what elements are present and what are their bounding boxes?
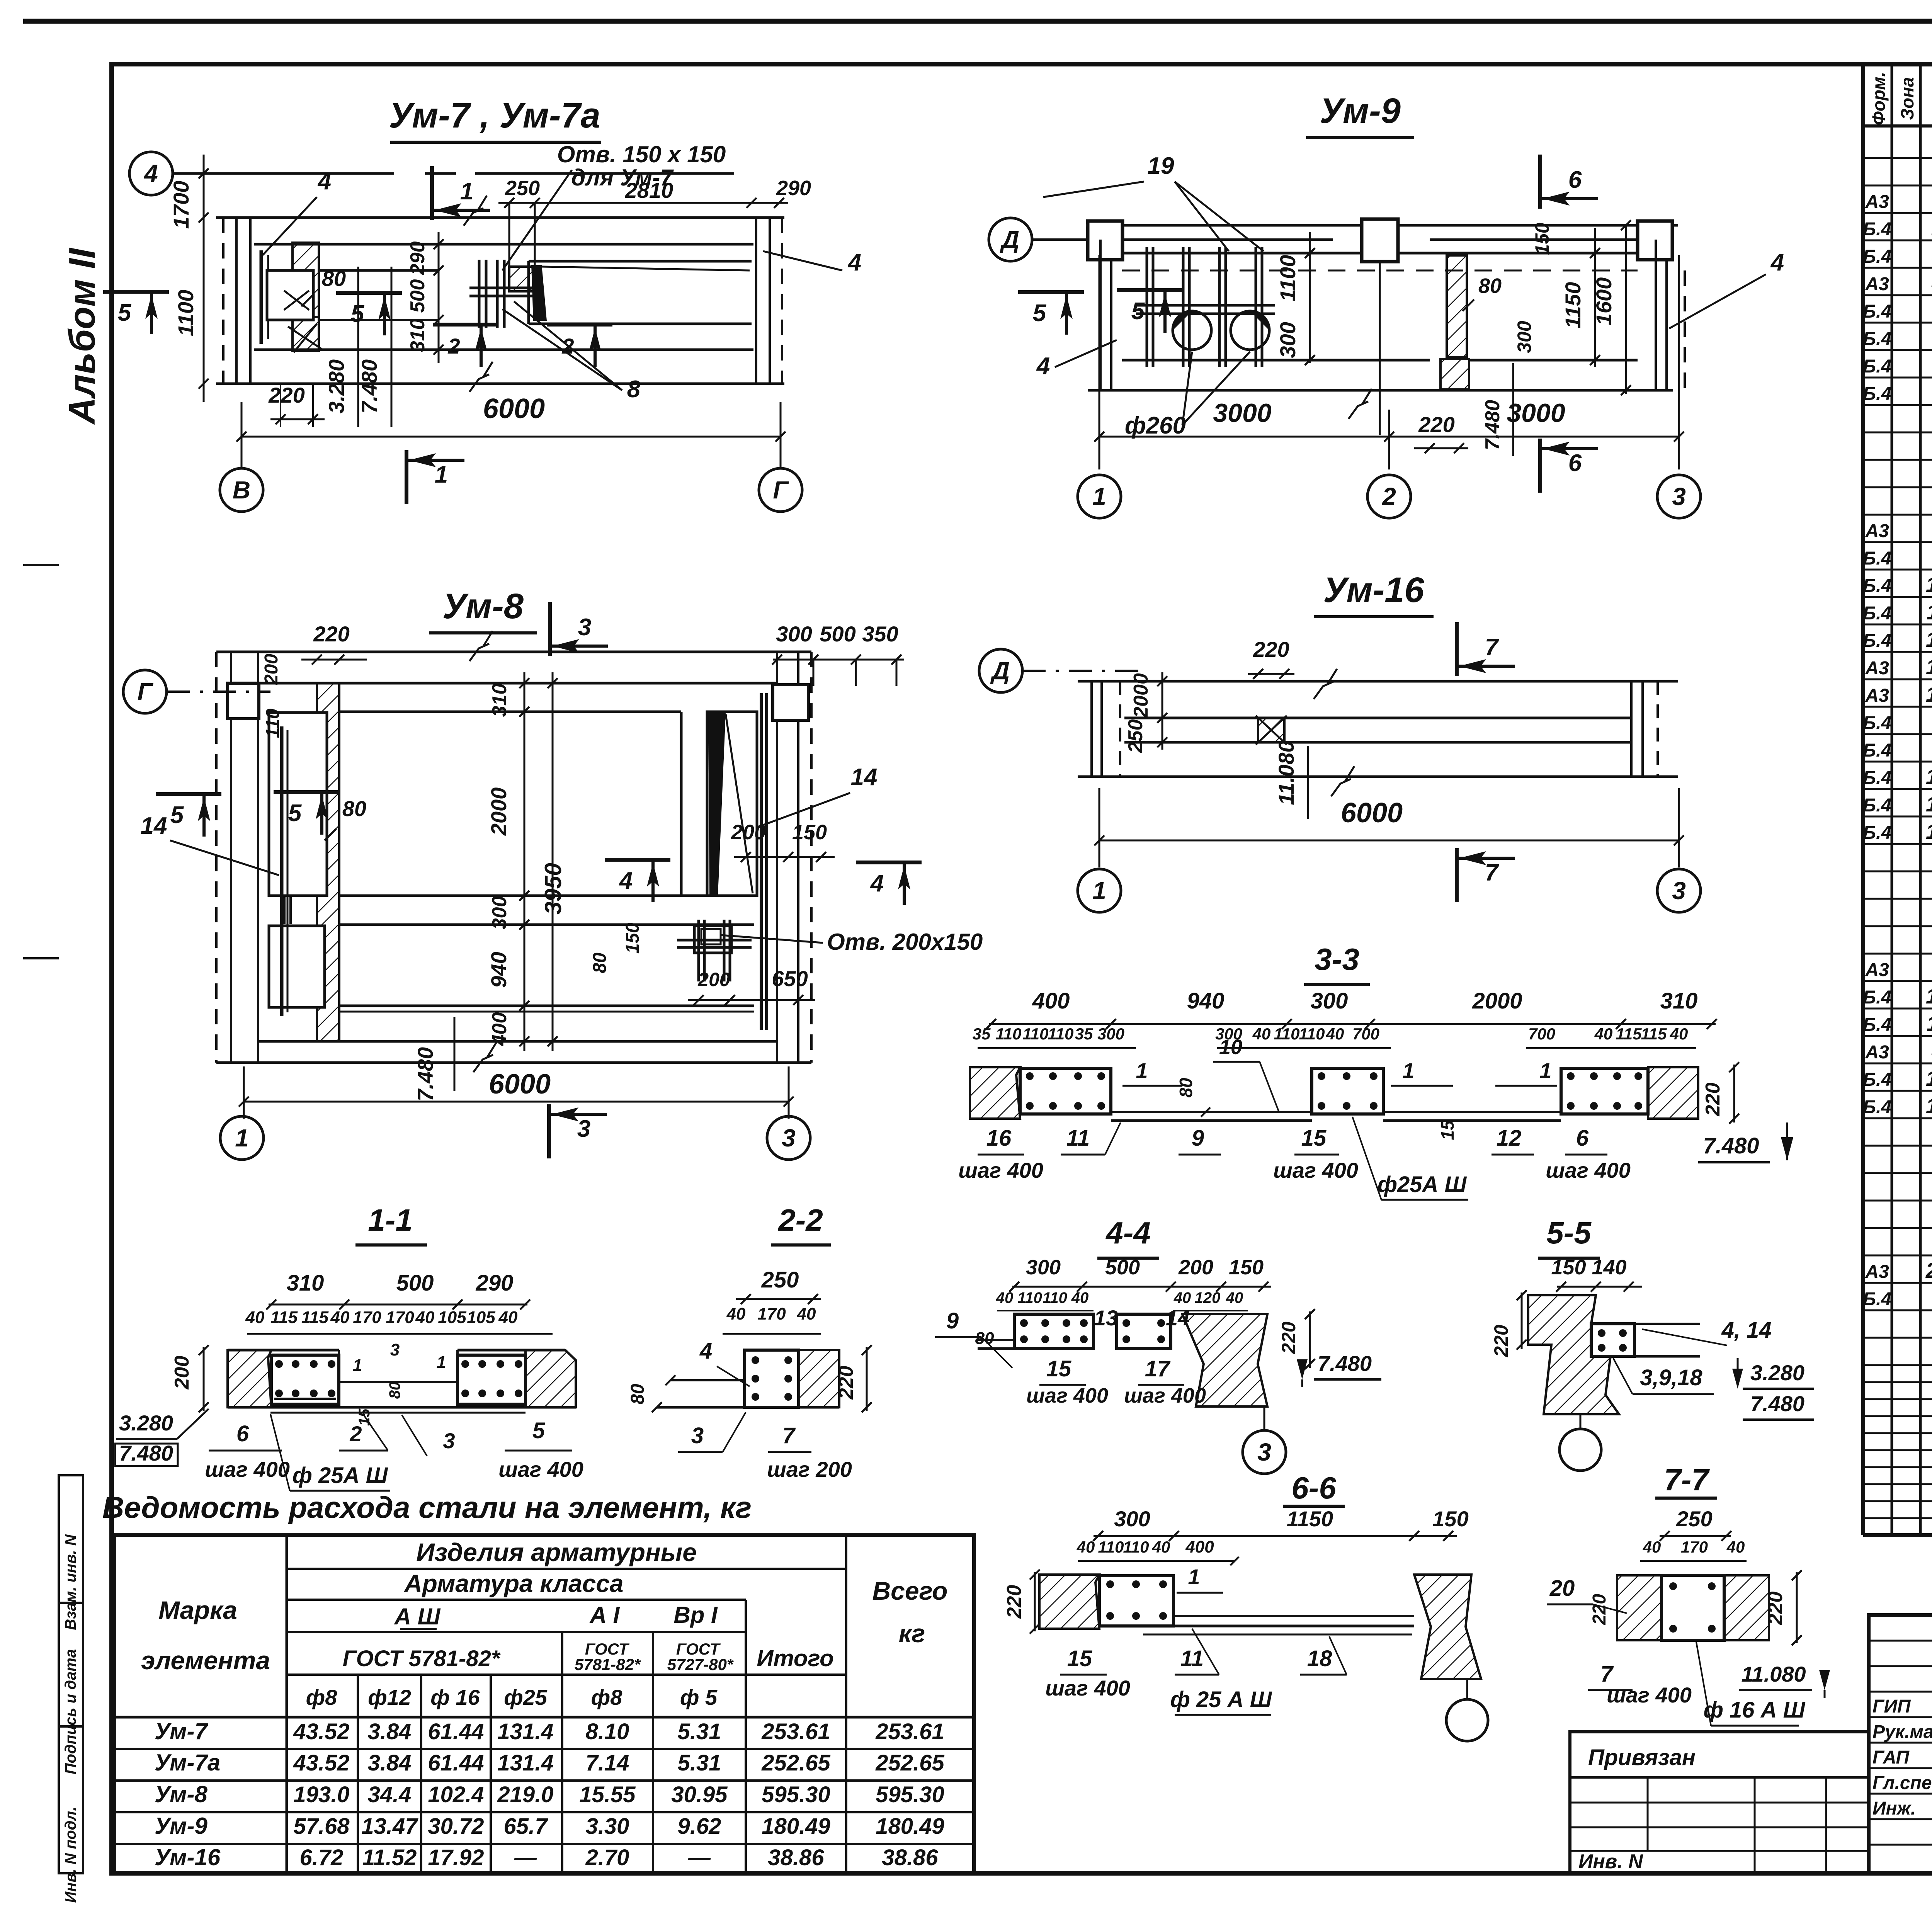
plan Um-7 axis circle В — [220, 468, 263, 512]
plan Um-9 axis circle 2 — [1367, 475, 1411, 518]
spec row 34 — [1863, 1063, 1932, 1065]
svg-text:11: 11 — [1927, 1011, 1932, 1036]
section 4-4 slab stub left — [978, 1339, 1014, 1341]
svg-text:300: 300 — [1097, 1025, 1124, 1043]
svg-text:40: 40 — [498, 1308, 518, 1327]
svg-text:115: 115 — [301, 1308, 329, 1327]
svg-text:300: 300 — [1311, 988, 1348, 1014]
svg-text:1100: 1100 — [1276, 255, 1300, 301]
binding mini table — [1570, 1732, 1869, 1873]
svg-text:Б.4: Б.4 — [1863, 795, 1891, 816]
svg-text:170: 170 — [1681, 1538, 1708, 1556]
spec row 23 — [1863, 761, 1932, 763]
svg-text:13.47: 13.47 — [361, 1814, 418, 1839]
plan Um-8 axis circle Г — [123, 670, 167, 713]
spec row 20 — [1863, 679, 1932, 680]
plan Um-9 axis line — [1032, 238, 1333, 241]
svg-text:Б.4: Б.4 — [1863, 219, 1891, 240]
plan Um-7 axis circle Г — [759, 468, 802, 512]
plan Um-8 lower niche — [269, 926, 325, 1007]
svg-text:шаг 400: шаг 400 — [1045, 1676, 1130, 1700]
svg-text:3000: 3000 — [1213, 398, 1271, 428]
svg-text:300: 300 — [776, 622, 812, 646]
spec row 41 — [1863, 1255, 1932, 1257]
svg-text:6000: 6000 — [489, 1069, 551, 1100]
section 4-4 axis circle 3 — [1264, 1406, 1265, 1430]
svg-text:16: 16 — [986, 1126, 1012, 1151]
svg-text:ф 16: ф 16 — [430, 1685, 480, 1709]
svg-text:35: 35 — [1075, 1025, 1093, 1043]
plan Um-9 top beam band — [1086, 224, 1678, 227]
plan Um-9 axis circle 3 — [1657, 475, 1701, 518]
svg-text:1: 1 — [1402, 1058, 1414, 1083]
section 4-4 beam box 2 — [1117, 1314, 1171, 1349]
svg-text:Ум-16: Ум-16 — [1323, 570, 1424, 610]
plan Um-9 rebar horizontals — [1136, 304, 1275, 307]
svg-text:57.68: 57.68 — [293, 1814, 350, 1839]
svg-text:1: 1 — [435, 461, 448, 488]
svg-text:Инв. N: Инв. N — [1578, 1850, 1643, 1873]
svg-text:14: 14 — [851, 764, 878, 791]
svg-text:40: 40 — [996, 1289, 1014, 1306]
plan Um-16 left end — [1090, 681, 1093, 777]
spec row 17 — [1863, 596, 1932, 598]
svg-text:Ум-7а: Ум-7а — [155, 1750, 220, 1776]
svg-text:500: 500 — [396, 1270, 434, 1296]
spec row 42 — [1863, 1282, 1932, 1284]
svg-text:3.280: 3.280 — [324, 359, 349, 413]
svg-text:300: 300 — [1114, 1507, 1150, 1531]
svg-text:А3: А3 — [1865, 1262, 1889, 1282]
svg-text:ф25: ф25 — [504, 1685, 548, 1709]
svg-text:А I: А I — [589, 1602, 620, 1628]
plan Um-16 bottom dim 6000 — [1099, 840, 1679, 842]
svg-text:шаг 400: шаг 400 — [1273, 1158, 1358, 1182]
svg-text:7.480: 7.480 — [1703, 1133, 1759, 1158]
svg-text:ф 16 А Ш: ф 16 А Ш — [1704, 1697, 1806, 1723]
svg-text:19: 19 — [1148, 153, 1174, 179]
svg-text:4: 4 — [1036, 353, 1050, 379]
plan Um-8 right wall — [776, 652, 778, 1063]
svg-text:34.4: 34.4 — [368, 1782, 412, 1807]
sheet top edge line — [23, 19, 1932, 24]
svg-text:5: 5 — [288, 800, 302, 827]
svg-text:4: 4 — [1770, 249, 1784, 276]
svg-text:15: 15 — [1046, 1356, 1071, 1381]
svg-text:40: 40 — [1252, 1025, 1271, 1043]
svg-text:940: 940 — [1187, 988, 1225, 1014]
svg-text:61.44: 61.44 — [428, 1719, 484, 1744]
plan Um-8 bottom dim 6000 — [244, 1101, 789, 1103]
svg-text:3.84: 3.84 — [368, 1719, 412, 1744]
spec row 3 — [1863, 212, 1932, 214]
svg-text:Арматура класса: Арматура класса — [404, 1570, 624, 1597]
svg-text:250: 250 — [1124, 719, 1147, 753]
svg-text:Ум-8: Ум-8 — [155, 1781, 208, 1807]
svg-text:7.14: 7.14 — [586, 1750, 629, 1776]
svg-text:252.65: 252.65 — [761, 1750, 830, 1776]
svg-text:40: 40 — [415, 1308, 435, 1327]
svg-text:1: 1 — [1188, 1565, 1200, 1589]
section 4-4 beam box 1 — [1014, 1314, 1094, 1349]
steel table frame — [114, 1535, 974, 1873]
svg-text:5.31: 5.31 — [678, 1719, 721, 1744]
plan Um-7 niche rectangle — [267, 270, 313, 320]
svg-text:3: 3 — [390, 1340, 400, 1359]
section 2-2 beam box — [745, 1350, 799, 1407]
svg-text:400: 400 — [488, 1012, 511, 1046]
svg-text:350: 350 — [862, 622, 898, 646]
svg-text:17: 17 — [1145, 1356, 1171, 1381]
section 6-6 right hatched block — [1414, 1575, 1481, 1679]
svg-text:13: 13 — [1094, 1306, 1118, 1330]
spec row 21 — [1863, 706, 1932, 708]
svg-text:193.0: 193.0 — [293, 1782, 349, 1807]
svg-text:Ведомость расхода стали на эле: Ведомость расхода стали на элемент, кг — [102, 1490, 752, 1524]
spec row 30 — [1863, 953, 1932, 955]
svg-text:Б.4: Б.4 — [1863, 384, 1891, 404]
svg-text:500: 500 — [820, 622, 855, 646]
svg-text:Всего: Всего — [872, 1577, 948, 1605]
svg-text:131.4: 131.4 — [497, 1750, 553, 1776]
plan Um-16 section flag 7 bottom — [1455, 848, 1459, 902]
svg-text:150 140: 150 140 — [1551, 1256, 1626, 1279]
spec row 27 — [1863, 871, 1932, 872]
svg-text:—: — — [688, 1845, 711, 1870]
svg-text:Взам. инв. N: Взам. инв. N — [62, 1534, 79, 1630]
svg-text:170: 170 — [386, 1308, 414, 1327]
plan Um-16 section flag 7 top — [1455, 622, 1459, 676]
section 5-5 rebar box — [1591, 1324, 1634, 1356]
svg-text:1100: 1100 — [173, 290, 198, 336]
spec row 32 — [1863, 1008, 1932, 1010]
svg-text:шаг 400: шаг 400 — [1026, 1384, 1108, 1407]
svg-text:15: 15 — [1926, 1066, 1932, 1090]
svg-text:40: 40 — [1594, 1025, 1613, 1043]
plan Um-8 corner columns — [228, 683, 259, 719]
section 2-2 slab lines — [670, 1379, 745, 1381]
section 1-1 top surface lines — [228, 1349, 339, 1352]
svg-text:250: 250 — [1676, 1507, 1712, 1531]
svg-text:4-4: 4-4 — [1105, 1216, 1151, 1250]
plan Um-9 column squares — [1088, 221, 1122, 260]
svg-text:Итого: Итого — [757, 1645, 834, 1671]
svg-text:4: 4 — [619, 867, 633, 894]
svg-text:3: 3 — [443, 1429, 455, 1453]
svg-text:14: 14 — [1926, 682, 1932, 706]
svg-text:40: 40 — [797, 1304, 816, 1323]
svg-text:40: 40 — [1152, 1538, 1170, 1556]
plan Um-9 dashed hidden edge — [1122, 270, 1638, 272]
spec row 26 — [1863, 843, 1932, 845]
specification table frame — [1861, 66, 1865, 1535]
svg-text:13: 13 — [1926, 655, 1932, 679]
plan Um-8 big opening upper — [339, 711, 681, 713]
section 3-3 slab line 1 — [1111, 1111, 1312, 1113]
svg-text:ф 25А Ш: ф 25А Ш — [293, 1463, 388, 1488]
svg-text:3000: 3000 — [1507, 398, 1565, 428]
svg-text:6.72: 6.72 — [300, 1845, 344, 1870]
svg-text:8.10: 8.10 — [586, 1719, 629, 1744]
svg-text:80: 80 — [628, 1384, 648, 1405]
svg-text:для Ум-7: для Ум-7 — [571, 165, 674, 190]
svg-text:110: 110 — [263, 708, 283, 738]
svg-text:А3: А3 — [1865, 192, 1889, 212]
svg-text:Изделия арматурные: Изделия арматурные — [416, 1538, 697, 1566]
plan Um-16 axis circle 3 — [1657, 869, 1701, 912]
section 1-1 beam box right — [457, 1355, 526, 1404]
spec row 36 — [1863, 1117, 1932, 1119]
svg-text:30.95: 30.95 — [671, 1782, 728, 1807]
svg-text:Ум-7: Ум-7 — [155, 1718, 209, 1744]
svg-text:219.0: 219.0 — [497, 1782, 553, 1807]
svg-text:80: 80 — [975, 1329, 994, 1348]
svg-text:А3: А3 — [1865, 1042, 1889, 1063]
plan Um-16 right end — [1630, 681, 1633, 777]
svg-text:4: 4 — [143, 160, 158, 187]
svg-text:11.080: 11.080 — [1741, 1662, 1806, 1686]
svg-text:А3: А3 — [1865, 685, 1889, 706]
svg-text:17.92: 17.92 — [428, 1845, 484, 1870]
svg-text:17: 17 — [1926, 819, 1932, 844]
svg-text:10: 10 — [1219, 1036, 1242, 1059]
svg-text:1: 1 — [235, 1124, 249, 1152]
svg-text:115: 115 — [270, 1308, 298, 1327]
section 6-6 thin slab — [1173, 1615, 1414, 1617]
svg-text:170: 170 — [757, 1304, 786, 1323]
svg-text:12: 12 — [1926, 627, 1932, 651]
svg-text:Ум-9: Ум-9 — [1320, 91, 1401, 131]
section 2-2 hatched right — [799, 1350, 839, 1407]
svg-text:2000: 2000 — [1472, 988, 1522, 1014]
svg-text:40: 40 — [245, 1308, 265, 1327]
svg-text:15: 15 — [1437, 1120, 1458, 1140]
plan Um-7 section mark 2 (left) — [433, 323, 498, 327]
svg-text:110: 110 — [996, 1025, 1022, 1043]
svg-text:А3: А3 — [1865, 960, 1889, 980]
svg-text:ГИП: ГИП — [1872, 1696, 1911, 1717]
svg-text:Б.4: Б.4 — [1863, 1070, 1891, 1090]
plan Um-9 rebar verticals — [1146, 247, 1148, 367]
svg-text:3: 3 — [1672, 483, 1686, 510]
svg-text:—: — — [514, 1845, 537, 1870]
svg-text:Б.4: Б.4 — [1863, 548, 1891, 569]
plan Um-8 left wall — [215, 652, 218, 1063]
svg-text:6: 6 — [1576, 1126, 1589, 1151]
svg-text:80: 80 — [1176, 1078, 1196, 1098]
svg-text:290: 290 — [476, 1270, 514, 1296]
svg-text:1: 1 — [460, 178, 473, 205]
svg-text:элемента: элемента — [141, 1646, 270, 1675]
plan Um-7 mid monolith edges — [319, 269, 439, 272]
svg-text:ф12: ф12 — [368, 1685, 411, 1709]
section 7-7 hatched band — [1617, 1575, 1662, 1640]
svg-text:15.55: 15.55 — [579, 1782, 636, 1807]
section 3-3 beam box 3 — [1561, 1068, 1648, 1114]
plan Um-8 right dark element — [707, 712, 757, 896]
svg-text:310: 310 — [488, 684, 511, 717]
svg-text:150: 150 — [792, 821, 827, 844]
svg-text:220: 220 — [1764, 1592, 1787, 1626]
svg-text:Ум-7 , Ум-7а: Ум-7 , Ум-7а — [389, 96, 600, 135]
spec row 25 — [1863, 816, 1932, 818]
svg-text:40: 40 — [330, 1308, 350, 1327]
svg-text:9.62: 9.62 — [678, 1814, 721, 1839]
spec row 37 — [1863, 1145, 1932, 1147]
svg-text:200: 200 — [731, 821, 766, 844]
svg-text:3: 3 — [691, 1423, 704, 1448]
spec row 38 — [1863, 1172, 1932, 1174]
svg-text:5: 5 — [170, 802, 184, 828]
spec row 39 — [1863, 1200, 1932, 1202]
svg-text:4: 4 — [699, 1338, 712, 1364]
plan Um-7 section flag 1 top — [430, 166, 434, 220]
plan Um-8 upper niche — [269, 713, 327, 896]
svg-text:18: 18 — [1307, 1646, 1332, 1671]
plan Um-8 axis circle 3 — [767, 1116, 810, 1160]
svg-text:шаг 400: шаг 400 — [205, 1457, 290, 1481]
svg-text:131.4: 131.4 — [497, 1719, 553, 1744]
spec row 6 — [1863, 294, 1932, 296]
svg-text:Д: Д — [1000, 226, 1019, 253]
svg-text:7.480: 7.480 — [413, 1047, 437, 1101]
svg-text:7: 7 — [782, 1423, 796, 1448]
svg-text:80: 80 — [1478, 274, 1502, 298]
svg-text:Инв. N подл.: Инв. N подл. — [62, 1807, 79, 1903]
spec row 4 — [1863, 240, 1932, 241]
svg-text:Ум-9: Ум-9 — [155, 1813, 208, 1839]
svg-text:ф 25 А Ш: ф 25 А Ш — [1170, 1687, 1272, 1712]
svg-text:Б.4: Б.4 — [1863, 576, 1891, 596]
svg-text:5781-82*: 5781-82* — [575, 1655, 641, 1673]
svg-text:7-7: 7-7 — [1664, 1463, 1710, 1497]
svg-text:6: 6 — [1568, 167, 1582, 193]
svg-text:290: 290 — [776, 177, 811, 200]
svg-text:Г: Г — [773, 476, 789, 504]
svg-text:120: 120 — [1195, 1289, 1221, 1306]
section 6-6 beam box — [1099, 1576, 1173, 1626]
svg-text:650: 650 — [772, 966, 808, 991]
svg-text:14: 14 — [1166, 1306, 1190, 1330]
svg-text:40: 40 — [1077, 1538, 1095, 1556]
svg-text:15: 15 — [1067, 1646, 1092, 1671]
plan Um-8 section mark 5 pair — [156, 792, 221, 796]
svg-text:5: 5 — [1033, 300, 1047, 327]
svg-text:80: 80 — [590, 952, 610, 973]
plan Um-8 section mark 4 (mid) — [605, 858, 670, 862]
svg-text:250: 250 — [761, 1267, 799, 1293]
svg-text:1: 1 — [1539, 1058, 1551, 1083]
svg-text:10: 10 — [1926, 572, 1932, 597]
plan Um-8 break marks — [469, 631, 493, 661]
svg-text:Б.4: Б.4 — [1863, 1015, 1891, 1035]
svg-text:Привязан: Привязан — [1588, 1745, 1696, 1770]
svg-text:2: 2 — [447, 334, 460, 358]
plan Um-7 break marks — [464, 196, 487, 226]
svg-text:А3: А3 — [1865, 658, 1889, 679]
spec row 9 — [1863, 377, 1932, 379]
svg-text:ф260: ф260 — [1125, 412, 1186, 439]
svg-text:500: 500 — [1105, 1256, 1140, 1279]
svg-text:220: 220 — [835, 1366, 857, 1400]
spec row 22 — [1863, 733, 1932, 735]
svg-text:700: 700 — [1352, 1025, 1379, 1043]
plan Um-9 holes Ф260 — [1173, 311, 1211, 350]
svg-text:310: 310 — [406, 319, 429, 352]
spec row 5 — [1863, 267, 1932, 269]
svg-text:200: 200 — [171, 1356, 193, 1390]
plan Um-7 wall outline — [216, 216, 784, 219]
plan Um-8 axis circle 1 — [220, 1116, 264, 1160]
svg-text:220: 220 — [1003, 1585, 1026, 1619]
section 7-7 rebar box — [1662, 1575, 1724, 1640]
svg-text:310: 310 — [1660, 988, 1698, 1014]
specification table narrow empty rows — [1863, 1381, 1932, 1383]
svg-text:Ум-16: Ум-16 — [155, 1844, 221, 1870]
svg-text:310: 310 — [287, 1270, 324, 1296]
svg-text:4: 4 — [870, 870, 884, 897]
section 5-5 axis circle empty — [1580, 1414, 1582, 1430]
svg-text:220: 220 — [1278, 1321, 1299, 1354]
svg-text:3: 3 — [1257, 1438, 1271, 1466]
plan Um-8 hatched wall strip — [317, 683, 339, 1041]
svg-text:105: 105 — [467, 1308, 495, 1327]
svg-text:Б.4: Б.4 — [1863, 301, 1891, 322]
svg-text:300: 300 — [1026, 1256, 1061, 1279]
svg-text:11: 11 — [1180, 1646, 1204, 1671]
spec row 31 — [1863, 980, 1932, 982]
svg-text:Инж.: Инж. — [1872, 1798, 1916, 1819]
section 3-3 right hatched block — [1648, 1067, 1698, 1119]
svg-text:2000: 2000 — [1130, 673, 1152, 718]
plan Um-7 right wall — [755, 218, 757, 384]
svg-text:1700: 1700 — [169, 181, 193, 229]
svg-text:6-6: 6-6 — [1291, 1471, 1336, 1505]
svg-text:Б.4: Б.4 — [1863, 740, 1891, 761]
svg-text:2.70: 2.70 — [585, 1845, 629, 1870]
plan Um-7 bottom dim 6000 — [241, 436, 781, 438]
svg-text:110: 110 — [1023, 1025, 1049, 1043]
svg-text:250: 250 — [505, 177, 540, 200]
section 3-3 beam box 1 — [1020, 1068, 1111, 1114]
plan Um-16 axis circle Д — [979, 649, 1022, 692]
svg-text:80: 80 — [386, 1382, 403, 1399]
svg-text:шаг 400: шаг 400 — [1124, 1384, 1206, 1407]
svg-text:1: 1 — [1092, 483, 1106, 510]
svg-text:1: 1 — [1136, 1058, 1148, 1083]
svg-text:3-3: 3-3 — [1315, 942, 1359, 976]
svg-text:20: 20 — [1925, 1258, 1932, 1282]
svg-text:3.84: 3.84 — [368, 1750, 412, 1776]
svg-text:5: 5 — [118, 299, 132, 326]
plan Um-7 section flag 1 bottom — [405, 450, 408, 504]
svg-text:253.61: 253.61 — [875, 1719, 944, 1744]
section 3-3 beam box 2 — [1312, 1068, 1383, 1114]
svg-text:Альбом II: Альбом II — [61, 247, 103, 425]
svg-text:Ум-8: Ум-8 — [442, 587, 524, 626]
svg-text:ф25А Ш: ф25А Ш — [1378, 1172, 1467, 1197]
plan Um-7 dim chain 290 500 310 — [438, 232, 440, 363]
svg-text:15: 15 — [356, 1408, 373, 1426]
svg-text:11: 11 — [1066, 1126, 1090, 1151]
svg-text:Марка: Марка — [158, 1596, 237, 1624]
svg-text:110: 110 — [1048, 1025, 1074, 1043]
svg-text:35: 35 — [973, 1025, 991, 1043]
svg-text:38.86: 38.86 — [768, 1845, 824, 1870]
plan Um-9 left wall verticals — [1099, 240, 1102, 390]
svg-text:Вр I: Вр I — [673, 1602, 718, 1628]
plan Um-16 hatched square — [1258, 718, 1284, 742]
